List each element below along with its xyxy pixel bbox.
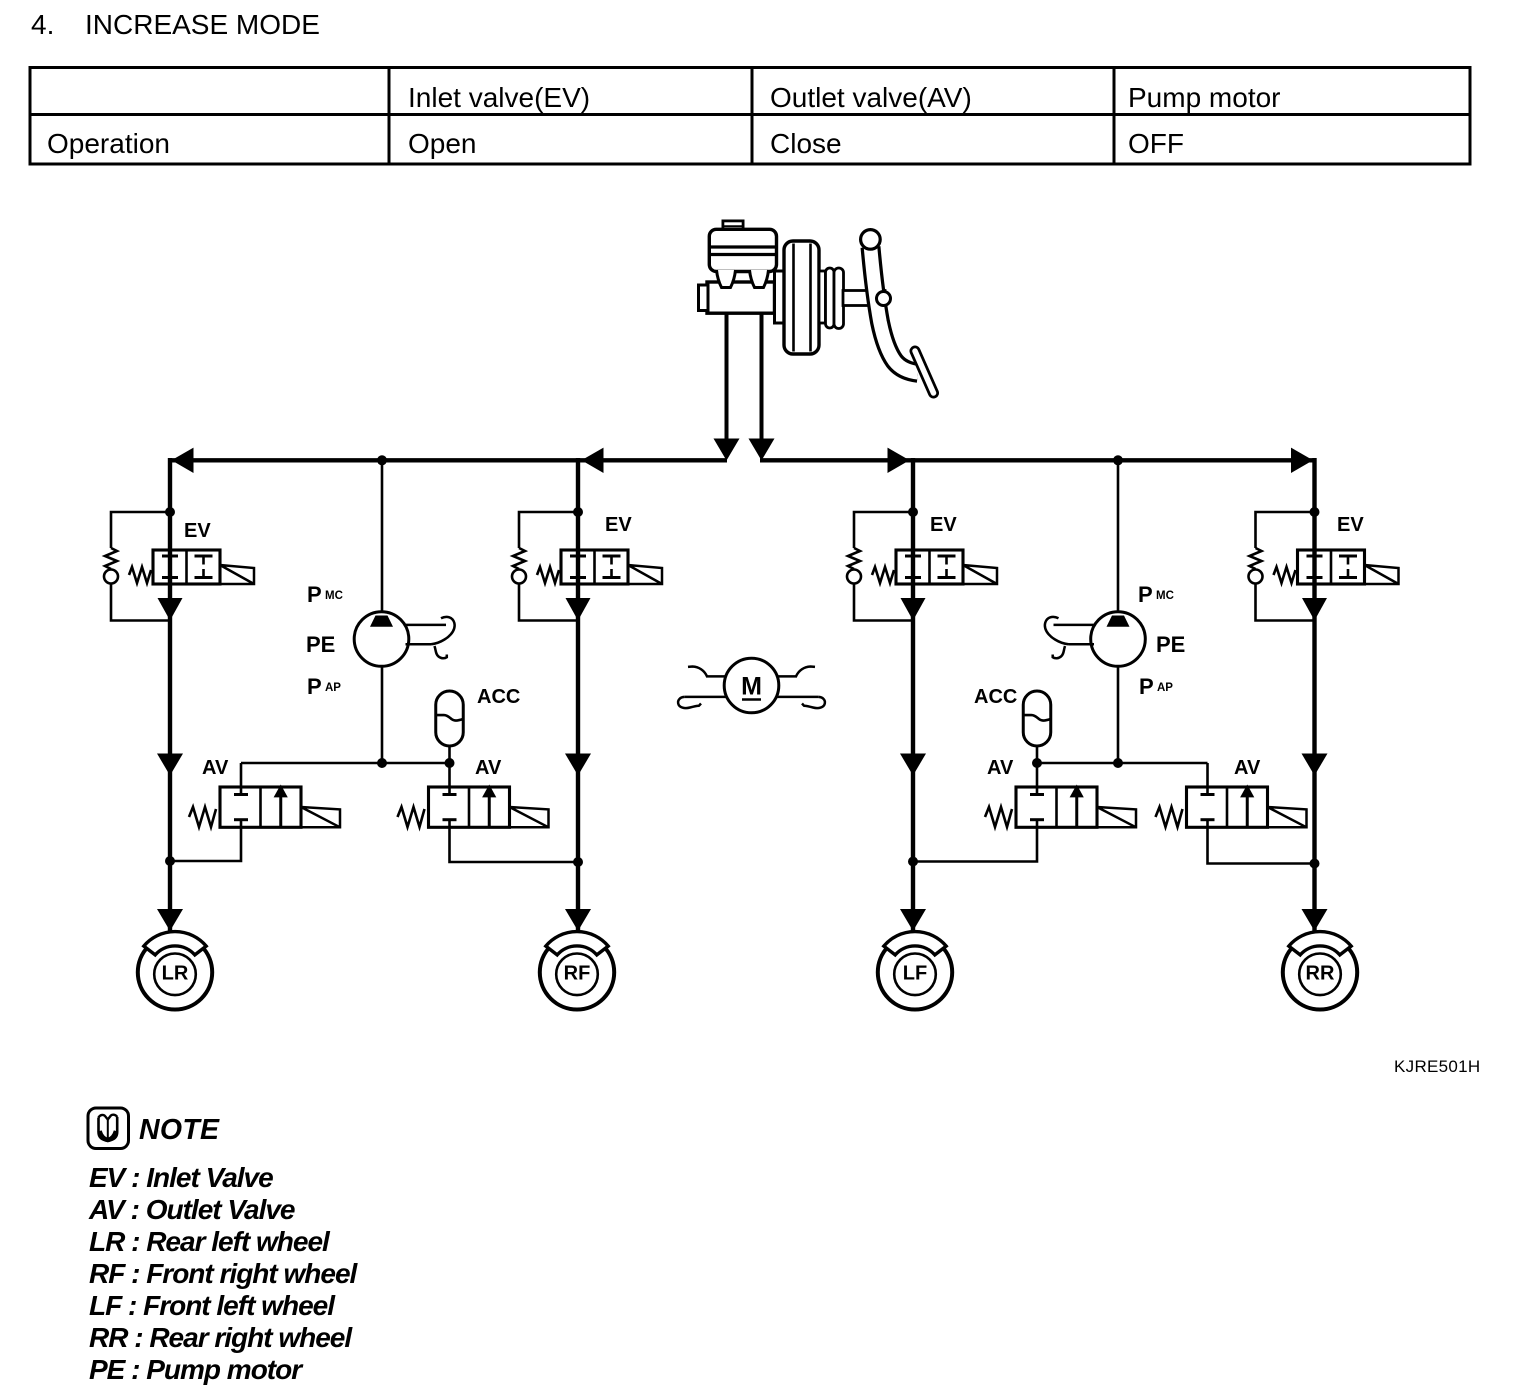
pump coupling claw (right pump) xyxy=(1045,617,1095,658)
svg-text:AV: AV xyxy=(202,757,229,779)
outlet valve AV (RR) xyxy=(1156,763,1307,827)
svg-text:ACC: ACC xyxy=(477,686,520,708)
svg-text:EV: EV xyxy=(184,520,211,542)
svg-text:Open: Open xyxy=(408,128,477,159)
bus arrow at RF junction xyxy=(582,448,604,473)
arrow into wheel LF xyxy=(900,909,926,931)
bus arrow at LF junction xyxy=(888,448,910,473)
wheel RR xyxy=(1283,932,1357,1010)
arrow mid LR branch xyxy=(157,754,183,776)
wire: LR branch vertical xyxy=(168,458,172,933)
svg-text:Inlet valve(EV): Inlet valve(EV) xyxy=(408,82,590,113)
wire: feed line MC to left bus xyxy=(725,313,729,450)
arrow into wheel RR xyxy=(1302,909,1328,931)
svg-text:Pump motor: Pump motor xyxy=(1128,82,1281,113)
svg-text:Close: Close xyxy=(770,128,842,159)
svg-text:MC: MC xyxy=(1156,590,1174,602)
svg-text:AV: AV xyxy=(1234,757,1261,779)
note icon book xyxy=(88,1108,129,1149)
wire: left AV supply rail xyxy=(241,762,450,765)
svg-text:NOTE: NOTE xyxy=(139,1114,220,1146)
svg-text:AV: AV xyxy=(987,757,1014,779)
brake booster xyxy=(775,241,844,354)
wire: RR branch vertical xyxy=(1312,458,1316,933)
arrow into wheel LR xyxy=(157,909,183,931)
svg-text:KJRE501H: KJRE501H xyxy=(1394,1057,1481,1076)
svg-text:OFF: OFF xyxy=(1128,128,1184,159)
svg-text:AV : Outlet Valve: AV : Outlet Valve xyxy=(88,1194,295,1225)
svg-text:Outlet valve(AV): Outlet valve(AV) xyxy=(770,82,972,113)
svg-text:Operation: Operation xyxy=(47,128,170,159)
svg-text:LF : Front left wheel: LF : Front left wheel xyxy=(89,1290,336,1321)
svg-text:RF : Front right wheel: RF : Front right wheel xyxy=(89,1258,359,1289)
master cylinder body xyxy=(699,221,777,313)
svg-text:INCREASE MODE: INCREASE MODE xyxy=(85,9,320,40)
wire: RF branch vertical xyxy=(576,458,580,933)
svg-text:EV: EV xyxy=(1337,514,1364,536)
wire: AV(LF) return to branch xyxy=(913,827,1037,861)
svg-text:M: M xyxy=(741,673,762,701)
accumulator ACC left xyxy=(436,691,464,746)
pump PE left xyxy=(381,458,384,613)
svg-text:LR : Rear left wheel: LR : Rear left wheel xyxy=(89,1226,331,1257)
svg-text:P: P xyxy=(307,674,322,699)
svg-text:P: P xyxy=(1139,674,1154,699)
table xyxy=(30,68,1470,165)
svg-text:MC: MC xyxy=(325,590,343,602)
wheel RF xyxy=(540,932,614,1010)
inlet valve EV (RR) xyxy=(1249,507,1399,621)
wire: feed line MC to right bus xyxy=(760,313,764,450)
wire: AV(RR) return to branch xyxy=(1208,827,1315,863)
pump coupling claw (left pump) xyxy=(405,617,455,658)
svg-text:RR: RR xyxy=(1306,963,1335,985)
outlet valve AV (LR) xyxy=(189,763,340,827)
svg-text:P: P xyxy=(307,582,322,607)
pump PE right xyxy=(1117,458,1120,613)
wire: right bus xyxy=(760,458,1317,462)
wire: AV(LR) return to branch xyxy=(170,827,241,861)
svg-text:LR: LR xyxy=(162,963,189,985)
arrow into wheel RF xyxy=(565,909,591,931)
svg-text:EV : Inlet Valve: EV : Inlet Valve xyxy=(89,1162,273,1193)
node: left bus / pump tap xyxy=(377,455,387,465)
outlet valve AV (LF) xyxy=(985,763,1136,827)
wire: LF branch vertical xyxy=(911,458,915,933)
node right rail / acc xyxy=(1032,758,1042,768)
inlet valve EV (RF) xyxy=(512,507,662,621)
motor coupling claw right xyxy=(777,667,825,709)
wire: AV(RF) return to branch xyxy=(450,827,579,862)
svg-text:LF: LF xyxy=(903,963,927,985)
wire: right AV supply rail xyxy=(1037,762,1208,765)
svg-text:RR : Rear right wheel: RR : Rear right wheel xyxy=(89,1322,353,1353)
electric motor M xyxy=(724,658,779,713)
arrow mid RF branch xyxy=(565,754,591,776)
svg-text:EV: EV xyxy=(930,514,957,536)
arrow mid RR branch xyxy=(1302,754,1328,776)
svg-text:AP: AP xyxy=(1157,682,1173,694)
arrow mid LF branch xyxy=(900,754,926,776)
bus arrow left end xyxy=(172,448,194,473)
svg-text:AV: AV xyxy=(475,757,502,779)
svg-text:AP: AP xyxy=(325,682,341,694)
svg-text:RF: RF xyxy=(564,963,591,985)
legend xyxy=(88,1162,359,1385)
svg-text:PE: PE xyxy=(306,632,335,657)
svg-text:EV: EV xyxy=(605,514,632,536)
node right rail / pump xyxy=(1113,758,1123,768)
brake pedal xyxy=(843,230,934,393)
node left rail / acc xyxy=(445,758,455,768)
bus arrow right end xyxy=(1291,448,1313,473)
wheel LR xyxy=(138,932,212,1010)
svg-text:4.: 4. xyxy=(31,9,54,40)
wire: left bus xyxy=(168,458,727,462)
outlet valve AV (RF) xyxy=(398,763,549,827)
node: right bus / pump tap xyxy=(1113,455,1123,465)
accumulator ACC right xyxy=(1023,691,1051,746)
svg-text:PE : Pump motor: PE : Pump motor xyxy=(89,1354,304,1385)
svg-text:P: P xyxy=(1138,582,1153,607)
motor coupling claw left xyxy=(678,667,726,709)
wheel LF xyxy=(878,932,952,1010)
svg-text:PE: PE xyxy=(1156,632,1185,657)
inlet valve EV (LR) xyxy=(104,507,254,621)
node left rail / pump xyxy=(377,758,387,768)
svg-text:ACC: ACC xyxy=(974,686,1017,708)
inlet valve EV (LF) xyxy=(847,507,997,621)
